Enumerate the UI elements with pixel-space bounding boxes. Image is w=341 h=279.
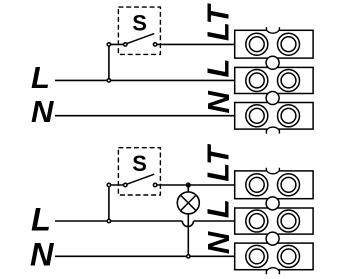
svg-text:N: N [201, 231, 236, 254]
svg-text:N: N [201, 91, 236, 114]
svg-text:S: S [132, 10, 147, 35]
svg-text:L: L [31, 60, 50, 95]
svg-text:LT: LT [201, 143, 236, 182]
svg-text:N: N [31, 94, 54, 129]
svg-text:L: L [31, 201, 51, 237]
svg-text:L: L [201, 59, 236, 78]
svg-text:S: S [132, 151, 147, 176]
svg-text:N: N [30, 237, 55, 273]
svg-text:LT: LT [201, 2, 236, 41]
svg-text:L: L [201, 199, 236, 218]
